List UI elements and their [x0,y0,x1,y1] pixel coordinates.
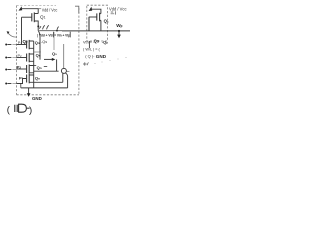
svg-text:GND: GND [32,96,42,101]
wire GND rail (left box) [21,87,68,89]
svg-text:Qn: Qn [35,75,40,80]
transistor Q2 gate plate [26,41,28,49]
transistor Q1 drain stub [34,21,38,31]
transistor Q4 stubs [29,66,34,73]
transistor Q2 stubs [29,41,34,48]
transistor Q6 stubs [100,14,101,21]
transistor Q1 source stub [34,13,38,15]
wire bus to central [34,51,40,53]
svg-text:( W/L ) ≈ (: ( W/L ) ≈ ( [83,48,100,52]
wire gate down (right box) [88,17,90,31]
wire continuation to right ground [62,30,130,32]
annotation arrow left outside [7,31,10,34]
left logic-block dashed box [16,6,18,95]
wire vertical B [53,32,55,50]
transistor Q1 gate plate [31,13,33,21]
tiny mark below right label [111,11,116,14]
transistor Q6 (keeper PMOS) channel [99,13,101,22]
ground junction dot [118,30,120,32]
svg-text:GND: GND [96,54,107,59]
transistor Q3 channel [28,53,30,62]
bubble tail down to rail [66,73,68,88]
wire gate bus down left [21,17,23,44]
wire staircase with arrowhead [44,58,52,60]
gate symbol: output dash [27,107,30,109]
transistor Q5 channel [28,74,30,83]
wire short drop to rail [20,84,22,88]
gate symbol: AND D-shape [19,104,27,112]
transistor Q3 stubs [29,54,34,61]
wire vertical C to bubble [63,44,65,68]
right keeper dashed box [87,5,108,41]
wire row3 top stub extension [34,65,37,67]
input terminal P4 [5,83,7,85]
wire keeper feedback vertical [62,73,64,82]
transistor Q1 (PMOS) channel [33,12,35,22]
gate symbol: input bars [15,105,17,112]
Vdd rail wire (left box) [20,9,38,14]
wire dash after Qn row3 [44,66,47,68]
input terminal P2 [5,57,7,59]
svg-text:-Qp: -Qp [102,40,108,45]
plus marks near box corner [83,62,87,66]
transistor Q3 (NMOS row2) gate wire [16,57,26,59]
input terminal P1 [5,44,7,46]
svg-text:Qn: Qn [36,52,41,57]
left box top edge faint [17,5,57,7]
transistor Q4 channel [28,64,30,73]
inverter bubble [61,68,66,73]
transistor Q6 drain wire [100,20,102,31]
transistor Q5 (NMOS row4) gate wire with jog [16,79,26,84]
svg-text:Q1: Q1 [40,14,46,19]
svg-text:): ) [29,105,32,116]
ground stub below box [28,88,30,94]
transistor Q5 stubs [29,75,63,82]
svg-text:Wp: Wp [116,23,122,28]
node line: long horizontal annotation [39,30,62,32]
transistor Q4 (NMOS row3) gate wire [16,68,26,70]
transistor Q6 gate plate [96,13,98,20]
transistor Q4 gate plate [26,65,28,73]
svg-text:Vdd / Vcc: Vdd / Vcc [42,7,58,12]
left box right edge [78,8,80,95]
left box bottom edge [17,94,80,96]
svg-text:Qn: Qn [37,65,42,70]
wire central vertical A [38,31,40,60]
rail tail [38,8,41,10]
wire stub below box into equation [88,41,90,48]
svg-text:Vdd / Vcc: Vdd / Vcc [109,7,127,12]
transistor Q2 (NMOS row1) gate wire [16,44,26,46]
wire drain bus [33,41,35,88]
junction tick on central wire [39,51,40,52]
svg-text:Qs: Qs [94,38,100,43]
bubble right tick [67,70,70,72]
input terminal P3 [5,69,7,71]
text row bars [53,32,70,38]
transistor Q5 gate plate [26,75,28,83]
left box top-right corner [75,6,79,13]
node junction dot [37,25,39,27]
faint speckles [94,57,126,64]
Vdd rail arrowhead (right box) [89,7,93,11]
ground arrow right [118,31,120,35]
svg-text:( Q )-: ( Q )- [85,54,95,59]
small tick mark [87,62,88,65]
svg-text:-Qs: -Qs [41,40,47,44]
transistor Q3 gate plate [26,54,28,62]
svg-text:Qs: Qs [52,51,57,56]
Vdd rail arrowhead (left box) [19,6,23,10]
transistor Q1 gate wire [22,16,32,18]
wire output horizontal [34,70,59,72]
svg-text:Qs: Qs [104,18,109,23]
svg-text:Qn: Qn [35,40,40,45]
Vdd rail wire (right box) [90,9,101,13]
junction dot mid [56,30,58,32]
transistor Q2 channel [28,40,30,49]
tick marks above node line [39,25,48,29]
transistor Q6 gate wire [89,16,97,18]
